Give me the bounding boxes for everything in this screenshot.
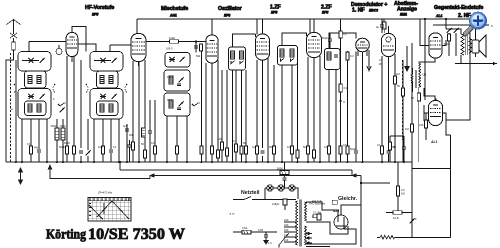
oscillator feedback resistor R osc — [169, 36, 179, 43]
wire zf1 to 1.ZF grid — [233, 34, 256, 47]
svg-text:20k: 20k — [129, 133, 134, 137]
wire v A mid2 — [38, 119, 40, 149]
wire v B mid2 — [110, 119, 112, 149]
zigzag resistor field coil — [380, 236, 395, 239]
ZF2 coil b — [290, 49, 294, 57]
wire top bus drop AL1 — [445, 19, 447, 29]
mixer pad cap — [148, 131, 152, 133]
coil L1 — [28, 76, 32, 84]
capacitor C6 — [37, 150, 41, 152]
return wire with up arrow — [48, 165, 150, 179]
wire top bus drop oscillator — [211, 19, 213, 35]
svg-text:5000: 5000 — [64, 141, 70, 145]
junction dot demod — [339, 100, 341, 102]
capacitor C9 — [109, 150, 113, 152]
wire R5 tail — [31, 153, 39, 162]
coil L5 — [100, 76, 104, 84]
wire k1 — [87, 119, 89, 162]
svg-text:Gegentakt-Endstufe: Gegentakt-Endstufe — [434, 5, 483, 11]
bus junction dot — [281, 161, 283, 163]
ZF1 coil b — [240, 51, 244, 59]
resistor 2,5 NG — [396, 162, 405, 213]
svg-text:0,1: 0,1 — [113, 145, 117, 149]
tube V3 EF8 Oszillator — [206, 35, 218, 63]
graph grid horizontal — [88, 202, 131, 218]
svg-text:150: 150 — [419, 123, 424, 127]
svg-text:0,1: 0,1 — [27, 142, 31, 146]
ZF2 coil a — [280, 49, 284, 57]
svg-text:0,1: 0,1 — [377, 143, 381, 147]
svg-text:1M: 1M — [396, 72, 400, 76]
smoothing cap 2 — [317, 214, 321, 220]
wire v demod b — [335, 70, 337, 163]
ZF2 trimmer a — [280, 58, 284, 61]
mains transformer HV winding top — [305, 202, 307, 221]
svg-text:3000: 3000 — [51, 124, 57, 128]
resistor EM1 anode — [383, 19, 386, 33]
output transformer core — [466, 35, 468, 55]
bus junction dot — [347, 161, 349, 163]
resistor R24 — [346, 146, 349, 154]
svg-text:0,1: 0,1 — [324, 145, 328, 149]
fuse bottom — [242, 226, 251, 234]
svg-text:125: 125 — [284, 233, 289, 237]
svg-text:0,5: 0,5 — [343, 143, 347, 147]
tube V1 EF5 HF-Vorstufe — [66, 33, 78, 57]
resistor 5000 a — [444, 34, 451, 46]
svg-text:2,5: 2,5 — [401, 188, 405, 192]
wire v al1 feed — [424, 19, 426, 100]
svg-text:4W: 4W — [34, 146, 38, 150]
tube V5 EF5 2.ZF — [307, 33, 322, 58]
wire zf2 top to 2.ZF — [282, 33, 307, 46]
svg-text:0,2: 0,2 — [252, 145, 256, 149]
svg-text:0,1: 0,1 — [151, 141, 155, 145]
wire v em1 p3 — [394, 54, 396, 162]
wire v zf2 c — [297, 55, 299, 150]
padder box C0 — [165, 53, 190, 68]
bus junction dot — [80, 161, 82, 163]
IF transformer ZF2 box — [278, 46, 298, 66]
wire top bus drop to mixer tube — [136, 19, 138, 34]
wire v 1500 coil — [62, 119, 64, 162]
svg-text:220: 220 — [284, 223, 289, 227]
wire v mixer p1 — [126, 124, 128, 162]
wire v ebc3 p3 — [362, 52, 364, 162]
bus junction dot — [46, 161, 48, 163]
wire al2 grid — [411, 140, 413, 162]
ground bus — [6, 161, 412, 163]
connector stem — [58, 45, 60, 49]
bandfilter box B1 — [90, 52, 123, 72]
resistor R17 — [272, 146, 275, 154]
wire R10 tail — [132, 140, 134, 162]
wire bus end drop — [411, 162, 413, 215]
antenna — [7, 20, 21, 35]
osc box cap b — [177, 108, 181, 110]
wire EM1 top — [388, 26, 390, 34]
resistor R21 — [312, 150, 315, 158]
fuse 5000 — [277, 167, 289, 175]
resistor 1M grid — [393, 76, 396, 84]
wire nfb vertical — [450, 135, 452, 169]
tone capacitor b — [454, 28, 459, 40]
wire v zf1 b — [241, 70, 243, 162]
ZF1 trimmer b — [240, 61, 244, 64]
osc coil box C1 — [164, 70, 190, 91]
wire nf long verticals — [403, 106, 419, 162]
svg-text:EBC3: EBC3 — [369, 9, 378, 13]
wire AL2 grid link — [424, 88, 435, 101]
down arrow volume — [405, 46, 409, 71]
osc grid resistor — [196, 44, 203, 58]
graph tick marks — [90, 198, 129, 201]
wire OT primary — [446, 29, 461, 64]
wire v B box left — [93, 119, 95, 162]
trimmer arrow A1 — [40, 58, 45, 63]
wire v demod a — [328, 70, 330, 163]
wire R21 tail — [313, 158, 315, 162]
wire AL1 grid top — [420, 19, 429, 46]
svg-text:AL1: AL1 — [430, 140, 438, 144]
wire v ebc3 p1 — [347, 51, 349, 162]
wire v c81 — [80, 60, 82, 162]
graph left numbers — [89, 204, 91, 216]
resistor 50 right — [388, 136, 396, 162]
wire v 1zf p4 — [273, 65, 275, 162]
svg-text:0,3: 0,3 — [344, 86, 348, 90]
wire v r67 — [66, 56, 68, 162]
svg-text:Fe.B: Fe.B — [393, 216, 399, 220]
svg-text:Körting: Körting — [46, 227, 86, 242]
svg-text:EF5: EF5 — [92, 13, 98, 17]
wire v 1zf p3 — [267, 58, 269, 162]
wire top bus drop 2.ZF anode — [309, 19, 311, 33]
svg-text:11kΩ: 11kΩ — [169, 36, 175, 40]
svg-text:EF5: EF5 — [322, 11, 328, 15]
wire HV top to AZ1 — [306, 202, 338, 217]
wire v 2zf p1 — [307, 57, 309, 162]
coil box A2 — [25, 71, 47, 88]
capacitor below fuse — [282, 178, 286, 188]
ground symbol — [264, 239, 272, 245]
tube V6 EBC3 Demodulator — [356, 38, 370, 52]
capacitor C15 — [260, 151, 264, 153]
svg-text:AH1: AH1 — [169, 14, 177, 18]
padder arrow — [180, 57, 185, 62]
svg-text:0,1: 0,1 — [233, 139, 237, 143]
svg-text:50μF: 50μF — [350, 147, 356, 151]
resistor R10 — [131, 142, 134, 150]
svg-text:104,5: 104,5 — [167, 75, 174, 79]
zf1 area resistor a — [219, 70, 224, 162]
capacitor right — [402, 136, 406, 162]
svg-text:4x0,1μF: 4x0,1μF — [312, 199, 322, 203]
svg-text:Ü1: Ü1 — [423, 73, 427, 77]
demodulator filter box — [325, 49, 341, 70]
capacitor C10 mixer — [125, 129, 129, 131]
transformer U1 core — [415, 70, 416, 88]
gang dashed arc left — [14, 84, 16, 93]
variable capacitor C2a — [100, 58, 106, 63]
tube V7 EM1 Abstimmanzeige — [382, 34, 396, 57]
osc trimmer C2 — [179, 102, 184, 107]
pin stub V2 — [138, 62, 140, 67]
resistor 0,1 4W ps — [313, 211, 322, 218]
wire al2 anode — [443, 64, 471, 121]
svg-text:Gleichr.: Gleichr. — [338, 196, 358, 202]
antenna switch — [10, 33, 17, 38]
junction dot ot — [445, 18, 447, 20]
tube pin stubs — [72, 50, 367, 66]
svg-text:a: a — [11, 107, 13, 111]
osc area resistor e — [200, 51, 203, 162]
ZF2 trimmer b — [290, 58, 294, 61]
wire heater winding AZ1 — [306, 222, 348, 234]
resistor U1 bottom — [411, 87, 420, 106]
resistor R20 — [306, 146, 309, 154]
gang dashed arc right — [53, 84, 55, 93]
rectifier tube AZ1 — [332, 209, 348, 229]
bus junction dot — [403, 161, 405, 163]
graph top scale band — [88, 200, 131, 202]
osc coil L9 — [169, 76, 173, 84]
bus junction dot — [21, 161, 23, 163]
mains switch — [244, 197, 251, 200]
zf1 area resistor d — [243, 70, 248, 162]
wire v osc box m — [176, 116, 178, 162]
IF transformer ZF1 box — [229, 47, 246, 70]
wire v em1 p2 — [388, 57, 390, 151]
wire 2.ZF anode top — [313, 19, 315, 33]
wire v ebc3 p2 — [355, 52, 357, 151]
wire v 1zf p2 — [262, 60, 264, 162]
wire tone to ground — [449, 36, 456, 56]
bus junction dot — [126, 161, 128, 163]
resistor R14 — [216, 150, 219, 158]
wire v r74 — [73, 56, 75, 162]
svg-text:2x8μF: 2x8μF — [272, 202, 280, 206]
bus junction dot — [211, 161, 213, 163]
junction dot al feed — [424, 18, 426, 20]
zf1 area resistor b — [225, 70, 228, 162]
wire antenna down — [13, 38, 15, 42]
AVC return line — [120, 169, 352, 171]
coil HF choke 1500 — [60, 124, 66, 140]
bus junction dot — [62, 161, 64, 163]
bus junction dot — [297, 161, 299, 163]
wire speaker line C — [433, 24, 489, 26]
wire R8 tail — [103, 153, 111, 162]
wire v osc p1 — [205, 63, 207, 162]
coil box B2 — [97, 71, 119, 88]
wire speaker top — [475, 25, 477, 40]
capacitor C22 — [386, 151, 390, 153]
bus junction dot — [394, 161, 396, 163]
variable capacitor C1a — [28, 58, 34, 63]
heater return line with arrows — [150, 174, 361, 179]
capacitor 0,05 to ground — [258, 228, 268, 239]
wire demod link — [340, 19, 342, 28]
bus junction dot — [335, 161, 337, 163]
wire speaker return — [475, 53, 477, 57]
dial lamp 1 — [267, 185, 273, 191]
svg-text:EF8: EF8 — [224, 14, 230, 18]
resistor R19 — [296, 150, 299, 158]
svg-text:50pF: 50pF — [322, 36, 328, 40]
output transformer secondary — [469, 38, 472, 53]
wire HF screen right — [78, 44, 96, 52]
wire B+ rail — [361, 183, 390, 247]
wire v mixer p4 — [144, 60, 146, 150]
wire pad cap — [149, 100, 151, 162]
svg-text:10/SE 7350 W: 10/SE 7350 W — [88, 226, 186, 243]
wire v nf1 — [402, 60, 404, 140]
connector circle antenna gang — [56, 49, 62, 55]
wire C22 tail — [388, 154, 390, 162]
osc box cap a — [177, 84, 181, 86]
demod cap — [334, 55, 338, 57]
mains transformer HV winding bottom — [305, 226, 307, 245]
svg-text:NG: NG — [401, 192, 405, 196]
gang dashed arc right B — [125, 84, 127, 93]
zf1 area resistor c — [233, 70, 238, 162]
wire output bottom rail — [455, 63, 497, 65]
wire field coil stub — [377, 237, 380, 239]
wire u1 secondary to al1 grid — [424, 105, 429, 121]
svg-text:1,0: 1,0 — [268, 241, 272, 245]
wire v A right — [46, 119, 48, 162]
coil L6 — [109, 76, 113, 84]
gang dashed arc left B — [86, 84, 88, 93]
mains transformer primary winding — [296, 201, 298, 245]
heater tap arrows — [306, 232, 312, 244]
wire R14 tail — [217, 158, 219, 162]
junction dot AL2 — [434, 98, 436, 100]
wire bottom heater rail — [306, 246, 330, 248]
wire v osc box l — [166, 116, 168, 162]
bus junction dot — [381, 161, 383, 163]
resistor R11 — [143, 150, 146, 158]
bus junction dot — [118, 161, 120, 163]
pin stub EBC3 — [358, 50, 367, 56]
coil HF choke 3000 — [51, 124, 60, 140]
junction dot mix anode — [195, 40, 197, 42]
magnifier plus — [474, 16, 482, 24]
svg-text:1M: 1M — [405, 127, 409, 131]
svg-text:2: 2 — [64, 101, 66, 105]
svg-text:0,1: 0,1 — [287, 145, 291, 149]
graph curve V — [97, 201, 129, 219]
wire R11 tail — [144, 150, 146, 162]
wire mains to transformer — [265, 200, 296, 233]
resistor 0,4 — [339, 28, 347, 38]
wire U1 to AL1 — [419, 58, 435, 63]
coil L2 — [37, 76, 41, 84]
variable capacitor C2b — [100, 94, 106, 99]
bus junction dot — [15, 161, 17, 163]
resistor 50k — [397, 84, 405, 96]
resistor R25 — [380, 146, 383, 154]
svg-text:1kΩ: 1kΩ — [98, 145, 103, 149]
svg-text:110: 110 — [284, 238, 289, 242]
svg-text:2. NF: 2. NF — [458, 13, 471, 19]
wire top bus drop 1.ZF anode — [256, 19, 258, 35]
electrolytic caps block — [272, 199, 287, 210]
ZF1 trimmer a — [231, 61, 235, 64]
tube V4 EF5 1.ZF — [256, 34, 270, 60]
tube V9 AL1 output 2 — [429, 101, 443, 145]
coil L4 — [37, 104, 41, 112]
mains wire bottom — [233, 231, 265, 233]
resistor R16 — [255, 146, 258, 154]
graph frame — [88, 198, 131, 222]
wire al2 right box — [446, 120, 451, 135]
svg-text:EF5: EF5 — [271, 11, 277, 15]
junction dot b+ — [360, 182, 362, 184]
wire HF grid — [29, 42, 66, 52]
ZF1 coil a — [231, 51, 235, 59]
svg-text:1: 1 — [53, 97, 55, 101]
resistor R18 — [290, 146, 293, 154]
graph grid vertical — [92, 198, 128, 222]
pin stub V1 — [71, 57, 73, 63]
resistor antenna shunt — [12, 42, 15, 50]
wire return rail — [412, 169, 451, 238]
bus junction dot — [201, 161, 203, 163]
capacitor C8 — [79, 151, 83, 153]
svg-text:50μF: 50μF — [59, 145, 65, 149]
wire AL1 cathode resistor — [419, 113, 428, 140]
wire v osc p3 — [217, 60, 219, 150]
wire grid feed HF — [15, 60, 17, 162]
al2 grid resistor — [405, 120, 414, 140]
wire box A1 internal — [22, 60, 39, 62]
pin stub V3 — [211, 63, 213, 66]
wire AZ1 cathode out — [341, 205, 361, 215]
wire v osc p2 — [211, 63, 213, 162]
wire HV bottom to AZ1 — [306, 217, 356, 244]
wire mixer out to osc resistor — [146, 42, 206, 53]
output transformer primary — [461, 34, 464, 55]
trimmer arrow B1 — [112, 58, 117, 63]
svg-text:0,5: 0,5 — [379, 58, 383, 62]
wire mix cap — [129, 140, 131, 162]
wire C20 tail — [355, 154, 357, 162]
wire osc tube top — [212, 18, 226, 20]
wire earth lead — [10, 53, 12, 162]
AVC line drop — [120, 162, 352, 176]
capacitor 50pF — [322, 33, 332, 49]
bandfilter box A1 — [18, 52, 51, 72]
resistor R22 — [327, 146, 330, 154]
svg-text:150: 150 — [284, 228, 289, 232]
resistor R13 — [210, 146, 213, 154]
wire HF anode loop — [72, 27, 86, 52]
wire v 1zf p1 — [256, 60, 258, 162]
capacitor C20 — [354, 151, 358, 153]
bus junction dot — [256, 161, 258, 163]
wire v A box left — [21, 119, 23, 162]
wire anode AL1 to OT — [442, 19, 446, 46]
junction dot avc — [119, 161, 121, 163]
svg-text:50k: 50k — [196, 54, 201, 58]
wire v HF cathode — [56, 119, 58, 128]
bus junction dots group — [15, 161, 405, 163]
diode arrow between columns — [60, 108, 65, 113]
wire v B mid1 — [102, 119, 104, 146]
svg-text:3: 3 — [198, 101, 200, 105]
